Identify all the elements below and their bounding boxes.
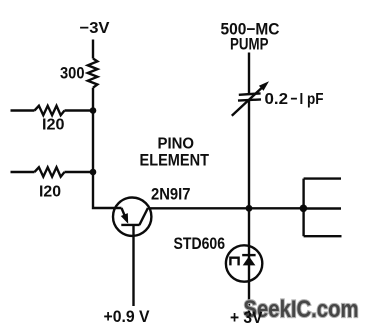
label PINO ELEMENT <box>140 136 210 170</box>
C1 adjust arrowhead <box>259 81 269 91</box>
wire R3 to node B <box>65 171 94 173</box>
Q1 base lead <box>132 225 134 306</box>
wire node D to output mid <box>303 207 341 209</box>
tunnel diode D1 body <box>226 245 262 281</box>
node C junction <box>246 205 253 212</box>
svg-text:−3V: −3V <box>80 20 110 37</box>
label 500-MC PUMP <box>221 21 280 54</box>
svg-text:+0.9 V: +0.9 V <box>104 308 150 326</box>
resistor R3 120 <box>35 167 65 176</box>
wire input 2 <box>11 171 35 173</box>
node B junction <box>90 169 97 176</box>
Q1 emitter arrow <box>121 213 128 224</box>
wire pump to C1 <box>248 53 250 95</box>
transistor Q1 body <box>113 198 151 236</box>
svg-text:+ 3V: + 3V <box>230 308 263 327</box>
wire node C through D1 to +3V <box>248 208 250 313</box>
Q1 emitter diagonal <box>122 208 126 218</box>
svg-text:I20: I20 <box>42 117 65 134</box>
capacitor C1 top plate <box>239 93 261 94</box>
svg-text:PINO: PINO <box>158 136 195 153</box>
Q1 collector diagonal <box>139 208 148 225</box>
svg-text:STD606: STD606 <box>174 235 226 253</box>
svg-text:300: 300 <box>60 65 85 83</box>
svg-text:0.2: 0.2 <box>265 91 289 108</box>
C1 adjust arrow shaft <box>232 86 264 116</box>
capacitor C1 bottom plate <box>238 99 261 100</box>
resistor R2 120 <box>35 106 65 115</box>
D1 tunnel cathode symbol <box>230 258 238 266</box>
node D junction <box>300 205 308 213</box>
wire node B to Q1 emitter <box>93 172 122 208</box>
wire -3V lead <box>92 40 94 59</box>
svg-text:−: − <box>291 91 298 108</box>
wire C1 to node C <box>248 101 250 208</box>
Q1 base bar <box>121 224 139 226</box>
wire input 1 <box>11 109 35 111</box>
wire node C to node D <box>249 207 303 209</box>
node A junction <box>90 107 97 114</box>
output bracket vertical <box>302 179 304 237</box>
svg-text:I pF: I pF <box>300 91 324 108</box>
value label 0.2-1 pF <box>265 91 324 108</box>
svg-text:2N9I7: 2N9I7 <box>151 186 191 204</box>
wire R1 to node A <box>92 88 94 111</box>
output arm top <box>304 177 341 179</box>
svg-text:I20: I20 <box>39 184 61 201</box>
svg-text:ELEMENT: ELEMENT <box>140 152 210 170</box>
D1 anode triangle <box>243 256 256 265</box>
wire Q1 collector to node C <box>148 207 249 209</box>
D1 cathode bar <box>242 254 255 256</box>
wire node A to node B <box>92 111 94 173</box>
svg-text:PUMP: PUMP <box>230 36 269 54</box>
output arm bottom <box>304 235 342 237</box>
wire R2 to node A <box>65 109 94 111</box>
resistor R1 300 <box>88 59 98 88</box>
